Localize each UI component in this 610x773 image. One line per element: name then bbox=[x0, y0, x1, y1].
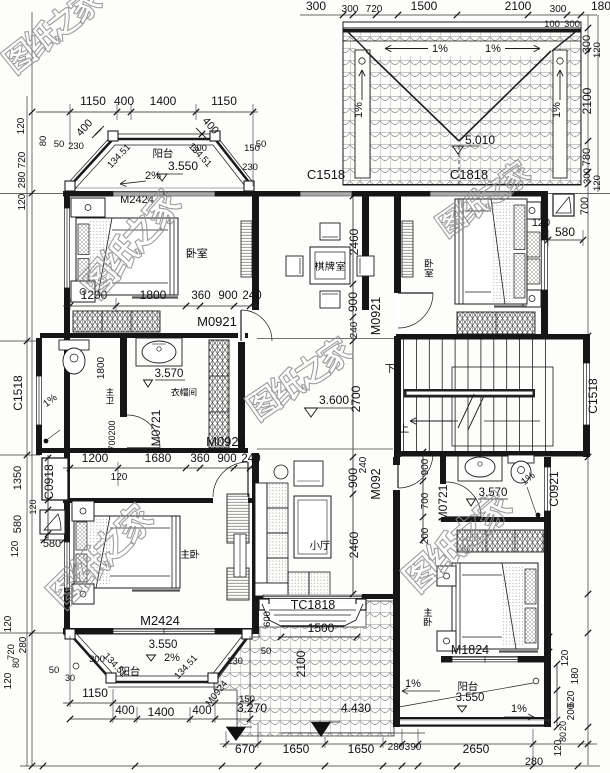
svg-text:1500: 1500 bbox=[308, 621, 335, 635]
svg-text:1350: 1350 bbox=[12, 466, 24, 490]
svg-text:M0921: M0921 bbox=[369, 297, 383, 335]
svg-text:400: 400 bbox=[192, 705, 211, 717]
svg-text:900: 900 bbox=[420, 458, 431, 475]
svg-text:50: 50 bbox=[54, 139, 65, 150]
svg-text:1%: 1% bbox=[551, 102, 563, 118]
svg-text:2%: 2% bbox=[164, 652, 180, 664]
svg-text:120: 120 bbox=[560, 649, 571, 666]
svg-text:1650: 1650 bbox=[348, 742, 375, 756]
svg-text:360: 360 bbox=[190, 453, 209, 465]
svg-text:200: 200 bbox=[566, 703, 577, 720]
svg-text:C0921: C0921 bbox=[547, 471, 561, 507]
svg-text:780: 780 bbox=[581, 148, 593, 166]
svg-text:3.550: 3.550 bbox=[149, 639, 178, 651]
svg-text:1150: 1150 bbox=[211, 94, 237, 108]
svg-text:M0721: M0721 bbox=[149, 409, 163, 446]
svg-text:1400: 1400 bbox=[148, 705, 175, 719]
svg-text:2100: 2100 bbox=[505, 0, 532, 13]
svg-text:4.430: 4.430 bbox=[341, 701, 371, 715]
svg-text:3.550: 3.550 bbox=[456, 692, 485, 704]
svg-text:120: 120 bbox=[532, 217, 550, 229]
svg-text:80: 80 bbox=[38, 136, 49, 147]
svg-text:C0918: C0918 bbox=[42, 464, 56, 500]
svg-text:700: 700 bbox=[420, 492, 431, 509]
svg-text:50: 50 bbox=[256, 139, 267, 150]
svg-text:1400: 1400 bbox=[150, 94, 177, 108]
svg-text:80: 80 bbox=[558, 732, 568, 742]
svg-text:670: 670 bbox=[235, 742, 255, 756]
svg-text:M0921: M0921 bbox=[197, 314, 237, 329]
svg-text:180: 180 bbox=[570, 667, 581, 684]
svg-text:280: 280 bbox=[525, 756, 543, 768]
svg-text:C1518: C1518 bbox=[307, 167, 345, 182]
svg-text:M2424: M2424 bbox=[140, 613, 180, 628]
svg-text:2460: 2460 bbox=[347, 228, 361, 255]
svg-text:900: 900 bbox=[346, 292, 360, 312]
svg-text:120: 120 bbox=[111, 472, 128, 483]
svg-text:300: 300 bbox=[564, 19, 580, 30]
svg-text:50: 50 bbox=[49, 665, 60, 676]
svg-text:120: 120 bbox=[10, 540, 21, 557]
svg-text:M1824: M1824 bbox=[451, 643, 489, 657]
svg-text:1500: 1500 bbox=[411, 0, 438, 13]
svg-text:3.270: 3.270 bbox=[237, 701, 267, 715]
svg-text:120: 120 bbox=[592, 175, 603, 191]
svg-text:900: 900 bbox=[346, 468, 360, 488]
svg-text:300: 300 bbox=[89, 654, 105, 665]
svg-text:1680: 1680 bbox=[145, 451, 172, 465]
svg-text:120: 120 bbox=[3, 672, 14, 689]
svg-text:240: 240 bbox=[241, 453, 260, 465]
svg-text:2650: 2650 bbox=[463, 742, 490, 756]
svg-text:900: 900 bbox=[218, 290, 237, 302]
svg-text:120: 120 bbox=[592, 42, 603, 58]
svg-text:120: 120 bbox=[3, 615, 14, 632]
svg-text:1800: 1800 bbox=[96, 356, 107, 379]
svg-text:700: 700 bbox=[579, 197, 591, 215]
svg-text:120: 120 bbox=[28, 499, 38, 514]
svg-text:1200: 1200 bbox=[82, 451, 109, 465]
svg-text:900: 900 bbox=[217, 453, 236, 465]
svg-text:300: 300 bbox=[550, 4, 567, 15]
svg-text:M092: M092 bbox=[369, 468, 383, 499]
svg-text:400: 400 bbox=[115, 705, 134, 717]
svg-text:240: 240 bbox=[242, 290, 261, 302]
svg-text:1650: 1650 bbox=[283, 742, 310, 756]
svg-text:2460: 2460 bbox=[347, 531, 361, 558]
svg-text:390: 390 bbox=[405, 742, 422, 753]
svg-text:120: 120 bbox=[17, 193, 28, 210]
svg-text:1150: 1150 bbox=[82, 686, 108, 700]
svg-text:TC1818: TC1818 bbox=[291, 598, 336, 612]
svg-text:360: 360 bbox=[191, 290, 210, 302]
svg-text:2100: 2100 bbox=[294, 650, 308, 677]
svg-text:720: 720 bbox=[6, 644, 17, 660]
svg-text:1800: 1800 bbox=[140, 288, 167, 302]
svg-text:240: 240 bbox=[349, 321, 360, 338]
svg-text:720: 720 bbox=[366, 4, 383, 15]
svg-text:300: 300 bbox=[306, 0, 326, 13]
svg-text:20: 20 bbox=[558, 721, 568, 731]
svg-text:80: 80 bbox=[11, 658, 21, 668]
svg-text:230: 230 bbox=[227, 656, 243, 667]
svg-text:580: 580 bbox=[12, 515, 24, 533]
svg-text:3.570: 3.570 bbox=[155, 368, 184, 380]
svg-text:230: 230 bbox=[242, 162, 258, 173]
svg-text:580: 580 bbox=[555, 225, 575, 239]
svg-text:100: 100 bbox=[544, 19, 560, 30]
svg-text:C1518: C1518 bbox=[586, 378, 600, 414]
svg-text:280: 280 bbox=[18, 636, 29, 653]
svg-text:3.550: 3.550 bbox=[168, 159, 198, 173]
svg-text:50: 50 bbox=[261, 646, 272, 657]
svg-text:120: 120 bbox=[16, 117, 27, 134]
svg-text:1%: 1% bbox=[432, 43, 448, 55]
svg-text:600: 600 bbox=[262, 611, 273, 627]
svg-text:300: 300 bbox=[342, 4, 359, 15]
svg-text:280: 280 bbox=[388, 742, 405, 753]
svg-text:280: 280 bbox=[17, 171, 28, 188]
svg-text:720: 720 bbox=[17, 151, 28, 168]
svg-text:2100: 2100 bbox=[580, 87, 594, 114]
svg-text:700: 700 bbox=[107, 435, 117, 450]
svg-text:3.600: 3.600 bbox=[319, 393, 349, 407]
svg-text:2%: 2% bbox=[145, 170, 161, 182]
svg-text:M0921: M0921 bbox=[206, 434, 246, 449]
svg-text:200: 200 bbox=[107, 420, 117, 435]
svg-text:1%: 1% bbox=[511, 703, 527, 715]
svg-text:1150: 1150 bbox=[80, 94, 106, 108]
svg-text:M0721: M0721 bbox=[436, 484, 450, 521]
svg-text:230: 230 bbox=[68, 141, 84, 152]
svg-text:1%: 1% bbox=[485, 43, 501, 55]
svg-text:C1518: C1518 bbox=[11, 375, 25, 411]
svg-text:5.010: 5.010 bbox=[465, 133, 495, 147]
svg-text:1%: 1% bbox=[353, 102, 365, 118]
svg-text:180: 180 bbox=[591, 0, 610, 13]
svg-text:C1818: C1818 bbox=[450, 167, 488, 182]
